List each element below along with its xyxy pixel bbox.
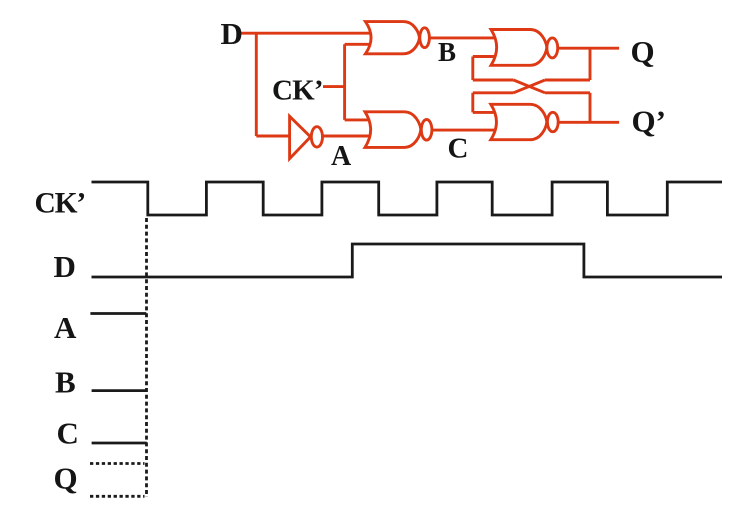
wire G3 lower input stub: [473, 55, 503, 58]
waveform B stub: [92, 389, 147, 392]
inverter U1: [290, 116, 323, 158]
wire G3 output to Q: [557, 47, 619, 50]
wire feedback right-lower horizontal: [545, 91, 590, 94]
svg-text:B: B: [55, 365, 76, 400]
nor-gate G2 body: [365, 112, 432, 148]
waveform A stub: [90, 312, 146, 315]
waveform Q dotted low: [90, 495, 145, 498]
waveform CK': [92, 182, 723, 215]
wire feedback left vertical up to G3 lower input: [471, 57, 474, 81]
wire feedback diagonal Q' to upper-left: [514, 80, 546, 93]
svg-text:Q: Q: [54, 461, 78, 496]
nor-gate G3 body: [491, 30, 558, 66]
wire feedback right vertical from Q' net up: [589, 93, 592, 123]
svg-text:Q’: Q’: [632, 104, 666, 139]
wire feedback left-upper horizontal: [473, 79, 514, 82]
wire feedback right-upper horizontal: [545, 79, 590, 82]
wire feedback right vertical from Q net down: [589, 48, 592, 80]
svg-text:A: A: [331, 141, 352, 172]
wire node C from G2 output to G4 lower input: [432, 129, 504, 132]
waveform Q dotted high: [90, 462, 145, 465]
nor-gate G1 body: [365, 22, 429, 54]
wire inverter output to G2 lower input (node A): [322, 135, 376, 138]
wire D vertical branch down: [255, 33, 258, 136]
wire feedback left-lower horizontal: [473, 91, 514, 94]
svg-text:A: A: [54, 310, 77, 345]
svg-text:Q: Q: [631, 34, 655, 69]
wire CK' vertical: [343, 44, 346, 120]
wire feedback diagonal Q to lower-left: [514, 80, 546, 93]
wire G4 output to Q': [558, 121, 620, 124]
wire node B from G1 output to G3 upper input: [429, 36, 503, 39]
waveform D: [92, 244, 723, 277]
svg-text:C: C: [448, 133, 469, 165]
wire D bottom horizontal to inverter input: [256, 135, 290, 138]
svg-text:D: D: [221, 16, 243, 51]
svg-text:C: C: [57, 416, 79, 451]
wire CK' lower branch to G2 upper input: [345, 118, 376, 121]
nor-gate G4 body: [491, 104, 558, 139]
svg-text:D: D: [54, 249, 76, 284]
wire feedback left vertical down to G4 upper input: [471, 93, 474, 113]
waveform C stub: [92, 442, 147, 445]
dotted vertical cursor line: [145, 218, 148, 497]
svg-text:CK’: CK’: [272, 74, 323, 106]
wire CK' upper branch to G1 lower input: [345, 43, 376, 46]
wire CK' stub from label: [323, 85, 345, 88]
wire G4 upper input stub: [473, 111, 503, 114]
svg-text:CK’: CK’: [35, 188, 85, 220]
svg-text:B: B: [438, 37, 456, 67]
wire D horizontal from label D to gate G1 upper input: [240, 32, 378, 35]
